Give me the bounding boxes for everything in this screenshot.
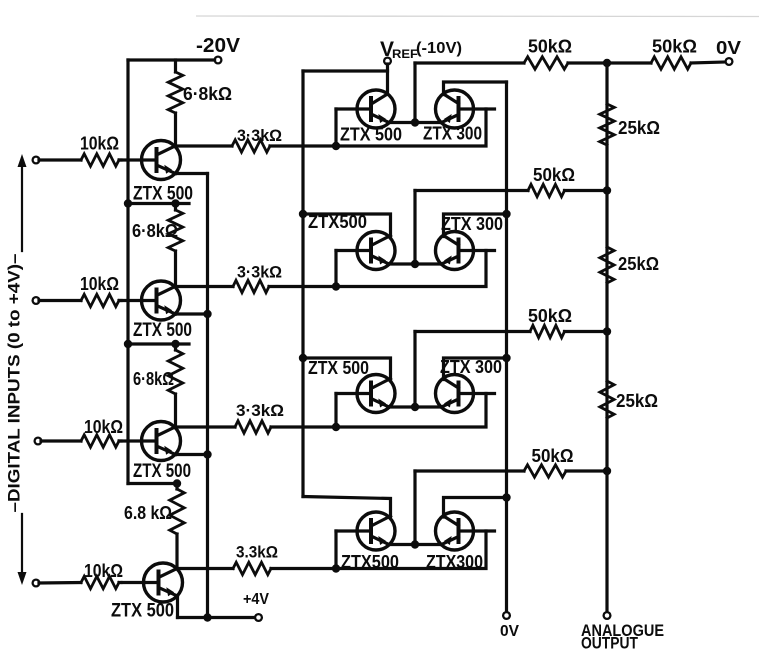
wire emitter bus (+4V) — [206, 174, 209, 618]
svg-text:6·8kΩ: 6·8kΩ — [183, 84, 232, 104]
junction stub/R3 top — [171, 199, 179, 207]
wire stub rail to R5 (stage3 6.8k) — [128, 342, 189, 345]
junction ladder node 2 — [603, 186, 611, 194]
wire node1 to top-right 50k — [607, 61, 651, 64]
wire base staple cell 1 — [336, 109, 486, 146]
wire bottom +4V run — [178, 616, 256, 619]
wire base staple cell 2 — [336, 251, 486, 287]
resistor 3.3k (bit 3 base feed) — [235, 421, 271, 433]
wire ladder row 4 — [415, 469, 524, 472]
wire common emitter cell 1 — [389, 121, 442, 124]
transistor Q2 ZTX500 (input stage 2) — [142, 281, 181, 320]
junction ladder node 4 — [603, 467, 611, 475]
junction bus/+4V run — [203, 613, 211, 621]
wire collector Q2 to 3.3k — [176, 285, 234, 288]
svg-text:10kΩ: 10kΩ — [84, 561, 123, 581]
wire 3.3k to switch pair 3 staple — [271, 425, 336, 428]
wire 3.3k to switch pair 1 staple — [270, 144, 336, 147]
resistor 50k (to 0V top) — [651, 57, 691, 69]
wire ladder row 2 — [415, 189, 528, 192]
terminal digital input bit 1 — [33, 157, 40, 164]
terminal Vref — [384, 58, 391, 65]
wire 3.3k to switch pair 4 staple — [271, 567, 336, 570]
transistor T2b ZTX300 (switch 2 npn) — [436, 232, 474, 270]
wire emitter Q2 to bus — [176, 312, 208, 315]
transistor T1a ZTX500 (switch 1 pnp) — [357, 90, 395, 128]
wire 3.3k to switch pair 2 staple — [269, 285, 336, 288]
svg-text:3.3kΩ: 3.3kΩ — [236, 544, 278, 562]
wire emitter node 2 to ladder row — [413, 191, 416, 265]
terminal digital input bit 3 — [35, 438, 42, 445]
resistor R3 6.8k (stage2 collector load) — [174, 204, 177, 211]
wire common emitter cell 3 — [389, 405, 442, 408]
junction rail/stub stage3 — [124, 340, 132, 348]
junction emitter node cell 4 — [411, 540, 419, 548]
junction rail/stub stage2 — [124, 199, 132, 207]
svg-text:ZTX 500: ZTX 500 — [340, 125, 402, 145]
svg-text:3·3kΩ: 3·3kΩ — [236, 402, 284, 420]
svg-text:–DIGITAL INPUTS (0 to +4V)–: –DIGITAL INPUTS (0 to +4V)– — [5, 254, 24, 513]
svg-text:ZTX 500: ZTX 500 — [133, 461, 191, 482]
svg-text:3·3kΩ: 3·3kΩ — [237, 264, 282, 282]
wire base staple cell 4 — [336, 531, 486, 569]
wire 50k to 0V terminal — [691, 62, 726, 63]
wire ladder row 1 — [415, 61, 524, 64]
wire emitter Q3 to bus — [176, 453, 208, 456]
wire collector Q4 to 3.3k — [177, 567, 233, 570]
svg-text:10kΩ: 10kΩ — [84, 417, 123, 437]
svg-text:OUTPUT: OUTPUT — [581, 635, 638, 653]
transistor T3a ZTX500 (switch 3 pnp) — [357, 375, 395, 413]
wire emitter node 1 to ladder row — [413, 63, 416, 123]
wire common emitter cell 4 — [389, 543, 442, 546]
resistor 50k row 4 — [524, 465, 566, 477]
junction staple feed 2 — [332, 282, 340, 290]
svg-text:ZTX 500: ZTX 500 — [133, 320, 192, 341]
resistor 50k row 2 — [528, 184, 565, 196]
wire emitter node 4 to ladder row — [413, 471, 416, 545]
svg-text:25kΩ: 25kΩ — [618, 118, 660, 138]
wire collector Q1 to 3.3k — [176, 144, 233, 147]
transistor T4a ZTX500 (switch 4 pnp) — [357, 512, 395, 550]
digital inputs dimension arrow (bottom) — [21, 514, 23, 577]
digital inputs dimension arrow (top) — [21, 162, 23, 251]
wire T2b collector to 0V bus — [444, 214, 507, 237]
wire 0V bus (cells right) — [505, 82, 508, 616]
wire T4b collector to 0V bus — [444, 498, 507, 518]
svg-text:0V: 0V — [716, 38, 741, 58]
wire common emitter cell 2 — [389, 262, 442, 265]
wire stub rail to R3 (stage2 6.8k) — [128, 202, 189, 205]
svg-text:+4V: +4V — [243, 591, 269, 608]
junction 0V bus cell3 — [502, 354, 510, 362]
wire input 2 to 10k — [39, 299, 81, 302]
resistor R7 6.8k (stage4 collector load) — [175, 484, 178, 490]
svg-text:REF: REF — [392, 49, 418, 61]
wire T3a collector to Vref bus — [303, 358, 391, 380]
svg-text:3·3kΩ: 3·3kΩ — [237, 127, 282, 145]
wire T3b collector to 0V bus — [444, 358, 507, 380]
terminal 0V (top right) — [726, 58, 733, 65]
wire 50k to ladder node 1 — [568, 61, 607, 64]
resistor 25k (node2-node3) — [600, 247, 614, 283]
svg-text:50kΩ: 50kΩ — [532, 446, 574, 466]
svg-text:6·8kΩ: 6·8kΩ — [132, 221, 178, 241]
junction 0V bus cell4 — [502, 493, 510, 501]
junction Vref bus cell3 — [299, 354, 307, 362]
terminal digital input bit 4 — [33, 580, 40, 587]
transistor Q3 ZTX500 (input stage 3) — [142, 422, 181, 461]
junction ladder node 1 — [603, 59, 611, 67]
transistor T2a ZTX500 (switch 2 pnp) — [357, 232, 395, 270]
wire 10k to base Q4 — [119, 581, 121, 584]
wire 10k to base Q1 — [119, 158, 121, 161]
svg-text:ZTX 300: ZTX 300 — [423, 124, 482, 144]
wire T2a collector to Vref bus — [303, 214, 391, 237]
wire Vref to Vref bus — [303, 69, 388, 72]
wire Vref bus — [301, 71, 304, 497]
wire emitter node 3 to ladder row — [413, 332, 416, 408]
wire 10k to base Q3 — [119, 439, 121, 442]
svg-text:25kΩ: 25kΩ — [616, 391, 658, 411]
junction emitter Q2/bus — [203, 310, 211, 318]
svg-text:50kΩ: 50kΩ — [528, 306, 572, 326]
resistor 10k (stage2 base) — [81, 294, 119, 306]
junction emitter Q3/bus — [203, 450, 211, 458]
wire input 1 to 10k — [39, 158, 81, 161]
transistor T1b ZTX300 (switch 1 npn) — [436, 90, 474, 128]
junction Vref bus cell2 — [299, 210, 307, 218]
terminal 0V (bottom) — [503, 612, 510, 619]
faint scan line — [196, 15, 759, 18]
svg-text:10kΩ: 10kΩ — [80, 134, 119, 154]
resistor 10k (stage4 base) — [81, 576, 119, 588]
transistor T3b ZTX300 (switch 3 npn) — [436, 375, 474, 413]
terminal analogue output — [604, 612, 611, 619]
wire emitter Q1 to bus — [176, 172, 208, 175]
resistor 10k (stage1 base) — [81, 154, 119, 166]
svg-text:6.8 kΩ: 6.8 kΩ — [124, 503, 172, 523]
junction 0V bus cell2 — [502, 210, 510, 218]
transistor Q4 ZTX500 (input stage 4) — [144, 563, 183, 602]
wire 10k to base Q2 — [119, 299, 121, 302]
svg-text:ZTX 500: ZTX 500 — [111, 601, 174, 622]
wire 50k to ladder node 3 — [565, 330, 608, 333]
terminal +4V — [255, 614, 262, 621]
svg-text:50kΩ: 50kΩ — [533, 165, 575, 185]
wire T1b collector to 0V bus — [444, 82, 507, 95]
wire -20V feed — [128, 58, 215, 61]
resistor 25k (node3-node4) — [600, 381, 614, 418]
svg-text:(-10V): (-10V) — [416, 40, 462, 57]
svg-text:0V: 0V — [500, 623, 520, 640]
wire Vref bus to T4a collector — [303, 497, 391, 517]
junction staple feed 1 — [332, 142, 340, 150]
transistor T4b ZTX300 (switch 4 npn) — [436, 512, 474, 550]
svg-text:6·8kΩ: 6·8kΩ — [133, 369, 174, 389]
svg-text:10kΩ: 10kΩ — [80, 274, 119, 294]
wire Vref to T1a collector — [386, 64, 389, 94]
terminal -20V — [215, 57, 222, 64]
resistor 3.3k (bit 2 base feed) — [233, 280, 269, 292]
resistor 3.3k (bit 4 base feed) — [233, 562, 271, 574]
svg-text:-20V: -20V — [196, 35, 241, 57]
wire ladder vertical — [605, 63, 608, 616]
junction emitter node cell 1 — [411, 118, 419, 126]
svg-text:50kΩ: 50kΩ — [652, 37, 697, 57]
junction staple feed 3 — [332, 423, 340, 431]
wire collector Q3 to 3.3k — [176, 425, 236, 428]
junction stub/R7 top — [173, 479, 181, 487]
wire input 4 to 10k — [39, 581, 81, 585]
transistor Q1 ZTX500 (input stage 1) — [142, 141, 181, 180]
wire ladder row 3 — [415, 330, 530, 333]
wire base staple cell 3 — [336, 394, 486, 428]
svg-text:ZTX 500: ZTX 500 — [308, 358, 369, 378]
wire stub rail to R7 (stage4 6.8k) — [128, 482, 177, 485]
resistor 3.3k (bit 1 base feed) — [232, 140, 270, 152]
resistor 25k (node1-node2) — [600, 104, 615, 145]
junction ladder node 3 — [603, 327, 611, 335]
wire 50k to ladder node 4 — [566, 469, 607, 472]
wire input 3 to 10k — [41, 439, 81, 442]
svg-text:ZTX 500: ZTX 500 — [133, 184, 193, 205]
svg-text:ZTX 300: ZTX 300 — [440, 357, 502, 377]
svg-text:ZTX 300: ZTX 300 — [441, 214, 503, 234]
junction stub/R5 top — [171, 340, 179, 348]
resistor 10k (stage3 base) — [81, 435, 119, 447]
junction staple feed 4 — [332, 564, 340, 572]
resistor 50k row 1 — [524, 57, 568, 69]
svg-text:50kΩ: 50kΩ — [528, 37, 572, 57]
wire -20V rail — [126, 60, 129, 484]
resistor 50k row 3 — [530, 325, 565, 337]
junction emitter node cell 3 — [411, 403, 419, 411]
junction emitter node cell 2 — [411, 260, 419, 268]
wire emitter Q4 down — [176, 596, 179, 618]
wire 50k to ladder node 2 — [565, 189, 608, 192]
terminal digital input bit 2 — [33, 297, 40, 304]
resistor R5 6.8k (stage3 collector load) — [174, 344, 177, 350]
resistor R1 6.8k (stage1 collector load) — [174, 60, 177, 72]
svg-text:25kΩ: 25kΩ — [618, 254, 659, 274]
